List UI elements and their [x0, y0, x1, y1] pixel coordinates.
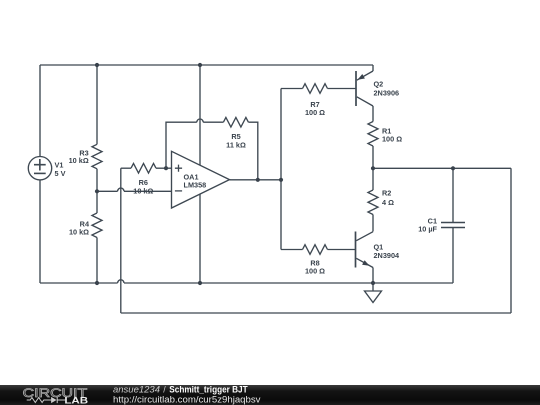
svg-text:http://circuitlab.com/cur5z9hj: http://circuitlab.com/cur5z9hjaqbsv [113, 394, 261, 404]
wire feedback vertical right [510, 168, 512, 313]
svg-text:ansue1234: ansue1234 [113, 385, 160, 395]
ground [365, 283, 382, 303]
svg-text:100 Ω: 100 Ω [305, 108, 325, 117]
wire hop bottom rail over feedback [118, 280, 124, 283]
svg-text:LM358: LM358 [184, 180, 207, 189]
resistor R6 [131, 163, 156, 173]
node non-inverting input [164, 166, 168, 170]
node R1 R2 junction [371, 166, 375, 170]
resistor R3 [92, 144, 102, 168]
svg-text:4 Ω: 4 Ω [382, 198, 394, 207]
footer bar [0, 385, 540, 405]
svg-text:5 V: 5 V [55, 169, 66, 178]
resistor R1 [368, 122, 378, 146]
node top rail op-amp V+ [198, 63, 202, 67]
wire Q2 emitter terminal [372, 65, 374, 71]
node Q1 emitter ground [371, 281, 375, 285]
resistor R5 [223, 117, 248, 127]
wire R5 right leg [248, 122, 257, 180]
op-amp OA1 [172, 151, 230, 208]
resistor R2 [368, 190, 378, 214]
node R3 R4 junction [95, 189, 99, 193]
transistor Q2 [356, 71, 373, 106]
wire V1 top lead [39, 65, 41, 157]
resistor R7 [303, 84, 328, 94]
resistor R4 [92, 213, 102, 237]
wire top rail [40, 64, 373, 66]
wire R8 left lead [281, 249, 303, 251]
transistor Q1 [356, 232, 374, 268]
node C1 top [451, 166, 455, 170]
wire R5 left leg [166, 122, 223, 168]
voltage source V1 [28, 157, 51, 180]
svg-text:LAB: LAB [64, 396, 88, 405]
wire R6 left lead [121, 167, 131, 169]
wire R3 top lead [96, 65, 98, 144]
capacitor C1 [441, 223, 465, 228]
logo CircuitLab [23, 386, 89, 405]
wire op-amp V+ pin [199, 65, 201, 165]
svg-text:11 kΩ: 11 kΩ [226, 141, 246, 150]
wire R8 right lead / Q1 base [328, 249, 356, 251]
svg-text:10 kΩ: 10 kΩ [133, 187, 153, 196]
wire hop inverting input over feedback [118, 188, 124, 191]
wire R4 bottom lead [96, 238, 98, 284]
wire bottom rail [40, 282, 453, 284]
wire feedback bottom [121, 312, 511, 314]
svg-text:Q2: Q2 [374, 79, 384, 88]
wire C1 top lead [452, 168, 454, 222]
svg-text:10 kΩ: 10 kΩ [69, 156, 89, 165]
wire inverting input [97, 190, 172, 192]
wire feedback vertical left [120, 168, 122, 313]
wire R7 left lead [281, 88, 303, 90]
wire V1 bottom lead [39, 180, 41, 283]
node output R7R8 [279, 178, 283, 182]
node R5 output junction [256, 178, 260, 182]
svg-text:R2: R2 [382, 189, 391, 198]
node top rail R3 [95, 63, 99, 67]
wire R1-R2 node to right [373, 167, 511, 169]
svg-text:100 Ω: 100 Ω [305, 267, 325, 276]
wire R2 top lead [372, 168, 374, 190]
wire R7R8 vertical [280, 89, 282, 250]
wire R3-R4 link [96, 169, 98, 213]
svg-text:10 kΩ: 10 kΩ [69, 227, 89, 236]
wire R7 right lead / Q2 base [328, 88, 357, 90]
wire Q1 emitter to ground [372, 268, 374, 284]
svg-text:100 Ω: 100 Ω [382, 134, 402, 143]
wire R1 bottom lead [372, 146, 374, 168]
wire op-amp V- pin [199, 194, 201, 283]
svg-text:2N3904: 2N3904 [374, 251, 401, 260]
svg-text:Schmitt_trigger BJT: Schmitt_trigger BJT [169, 385, 248, 395]
wire hop R5 leg over vplus [197, 119, 203, 122]
wire R2 bottom to Q1 collector [372, 215, 374, 232]
resistor R8 [303, 245, 328, 255]
wire op-amp output [230, 179, 282, 181]
wire C1 bottom lead [452, 228, 454, 284]
node R4 bottom rail [95, 281, 99, 285]
svg-text:2N3906: 2N3906 [374, 88, 400, 97]
wire Q2 collector to R1 [372, 106, 374, 122]
wire R6 right lead [156, 167, 172, 169]
svg-text:10 µF: 10 µF [418, 224, 437, 233]
footer title text [113, 385, 261, 405]
node op-amp V- rail [198, 281, 202, 285]
